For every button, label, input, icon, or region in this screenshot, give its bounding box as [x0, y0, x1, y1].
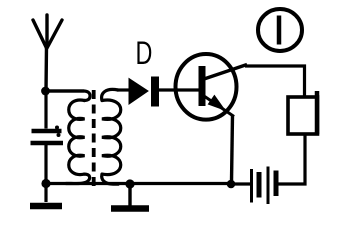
wire (bottom rail): [46, 182, 231, 185]
node B (bottom-left junction): [41, 179, 50, 188]
wire (battery to junction): [231, 182, 250, 185]
ground (left): [30, 203, 62, 210]
node A (antenna/tank junction): [41, 87, 50, 96]
meter M1: [258, 9, 302, 51]
capacitor C1: [31, 91, 64, 202]
resistor R1: [288, 91, 318, 134]
ground (secondary): [111, 205, 149, 212]
diode D: [129, 77, 159, 106]
svg-text:D: D: [136, 34, 153, 71]
wire (junction to primary top): [46, 89, 84, 92]
transformer T1 core: [92, 90, 96, 187]
wire (collector to right corner): [245, 66, 305, 97]
wire (secondary bottom to ground): [128, 184, 131, 206]
wire (secondary top to diode): [117, 88, 129, 91]
antenna: [33, 15, 62, 91]
transistor Q1: [176, 54, 248, 120]
wire (emitter down): [232, 115, 233, 182]
node D (secondary bottom junction): [125, 179, 134, 188]
transformer T1 primary winding: [46, 91, 90, 184]
battery B1: [252, 167, 277, 205]
node C (emitter/battery junction): [227, 180, 236, 189]
wire (diode to base): [158, 88, 200, 91]
wire (resistor bottom to battery): [278, 134, 305, 184]
transformer T1 secondary winding: [102, 89, 121, 184]
